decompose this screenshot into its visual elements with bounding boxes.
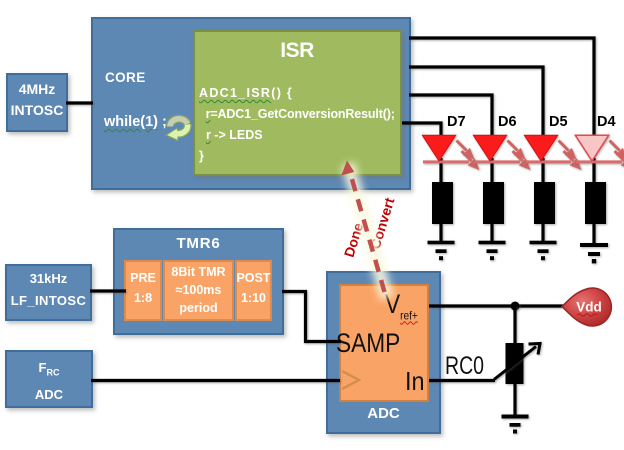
wire node to potentiometer [513, 306, 516, 345]
label ISR title [247, 39, 347, 63]
wire 4MHz INTOSC to CORE [66, 101, 93, 104]
ground under D6 [479, 241, 506, 261]
label Convert [367, 196, 398, 251]
label D7 [447, 114, 466, 130]
resistor for D7 [432, 182, 453, 224]
label D5 [549, 114, 568, 130]
label D6 [498, 114, 517, 130]
ground under D5 [530, 241, 557, 261]
label In [405, 366, 425, 397]
wire TMR6 POST to ADC SAMP [282, 292, 341, 342]
label ISR code [199, 83, 395, 167]
label while(1) ; [104, 114, 167, 130]
label SAMP [336, 328, 400, 359]
label 4MHz INTOSC [6, 79, 68, 121]
junction node at Vref [511, 302, 520, 311]
label RC0 [445, 352, 484, 381]
label PRE 1:8 [124, 268, 162, 308]
wire CORE to LED D6 [409, 95, 492, 140]
potentiometer wiper arrow [494, 344, 540, 380]
clock input chevron inside SAMP [342, 371, 359, 389]
wire FRC to ADC In [91, 379, 340, 382]
block 31kHz LF_INTOSC [5, 264, 92, 321]
wire CORE to LED D7 [402, 123, 441, 140]
wire potentiometer to ground [513, 384, 516, 416]
block FRC ADC clock [5, 350, 93, 408]
dashed Done/Convert arrow [341, 161, 384, 293]
label D4 [597, 114, 616, 130]
block ISR [193, 30, 402, 176]
wire D7 resistor to ground [439, 224, 442, 242]
block 4MHz INTOSC [6, 73, 68, 132]
resistor for D5 [534, 182, 555, 224]
label 31kHz LF_INTOSC [5, 268, 92, 312]
ground under D7 [428, 241, 455, 261]
label 8Bit TMR 100ms period [163, 263, 234, 317]
LED D5 [524, 135, 579, 184]
label POST 1:10 [235, 268, 272, 308]
block POST postscaler [235, 260, 272, 321]
dashed Done/Convert arrow glow [348, 164, 387, 298]
label CORE [105, 70, 146, 85]
wire D5 resistor to ground [541, 224, 544, 242]
wire D4 resistor to ground [592, 224, 595, 244]
resistor for D4 [585, 182, 606, 224]
ground under D4 [580, 243, 608, 263]
label Done [341, 221, 367, 259]
LED D4 [575, 135, 624, 184]
wire In to potentiometer wiper [429, 379, 495, 382]
Vdd supply balloon [562, 288, 611, 326]
block 8Bit TMR [163, 260, 234, 321]
block ADC [326, 271, 441, 434]
label FRC ADC [5, 357, 93, 406]
block TMR6 [113, 228, 284, 335]
wire Vref+ to Vdd node [429, 304, 564, 307]
wire CORE to LED D4 [409, 38, 594, 140]
wire CORE to LED D5 [409, 67, 543, 140]
potentiometer RC0 body [506, 343, 524, 384]
ground under potentiometer [502, 415, 529, 434]
label ADC [326, 405, 441, 422]
wire D6 resistor to ground [490, 224, 493, 242]
block PRE prescaler [124, 260, 162, 321]
while(1) loop arrow icon [165, 119, 188, 142]
LED D6 [473, 135, 528, 184]
block SAMP sample/hold [339, 284, 429, 402]
wire 31kHz to TMR6 PRE [90, 289, 126, 292]
label Vref+ [385, 289, 418, 322]
label TMR6 [113, 235, 284, 252]
svg-text:Vdd: Vdd [576, 300, 602, 315]
resistor for D6 [483, 182, 504, 224]
block CORE [91, 17, 411, 190]
LED D7 [422, 135, 477, 184]
